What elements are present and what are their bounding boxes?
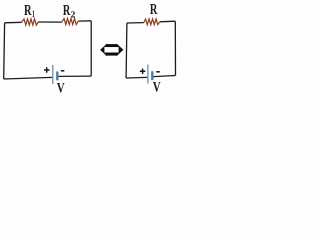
resistor R2 xyxy=(62,19,78,25)
wire left circuit bottom-left segment xyxy=(4,77,53,79)
wire left circuit bottom-right segment xyxy=(58,75,91,77)
battery V right: long plate xyxy=(147,65,149,84)
wire left circuit top-middle segment xyxy=(38,21,62,23)
battery V left: label V xyxy=(57,83,65,93)
wire right circuit top-left segment xyxy=(127,22,144,24)
wire right circuit left side xyxy=(125,23,128,78)
battery V right: minus sign xyxy=(156,71,160,73)
wire right circuit right side xyxy=(174,21,176,75)
battery V left: long plate xyxy=(52,65,54,84)
battery V left: short plate xyxy=(56,72,58,81)
battery V right: short plate xyxy=(151,71,153,80)
label R xyxy=(150,4,157,14)
resistor R xyxy=(144,19,160,25)
battery V left: plus sign xyxy=(44,67,50,73)
battery V right: plus sign xyxy=(140,69,145,74)
label R2 xyxy=(63,5,70,15)
battery V right: label V xyxy=(153,82,161,92)
wire left circuit top-right segment xyxy=(78,20,91,22)
wire right circuit bottom-right segment xyxy=(153,76,175,77)
wire left circuit right side xyxy=(90,21,92,76)
wire left circuit top-left segment xyxy=(5,21,22,24)
battery V left: minus sign xyxy=(61,70,64,72)
label R1 xyxy=(24,5,31,15)
wire left circuit left side xyxy=(3,23,6,79)
equivalence double arrow xyxy=(100,44,123,57)
wire right circuit bottom-left segment xyxy=(126,76,147,79)
wire right circuit top-right segment xyxy=(160,20,176,23)
resistor R1 xyxy=(22,19,39,25)
